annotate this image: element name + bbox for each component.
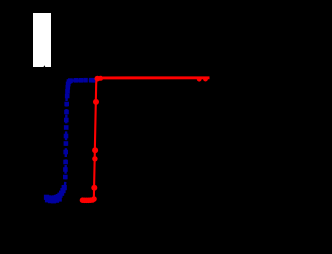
white box — [33, 13, 51, 67]
red curve line top — [98, 76, 210, 79]
red curve line lower — [81, 78, 100, 200]
blue markers vertical — [63, 82, 71, 180]
blue curve line — [46, 80, 95, 199]
red markers vertical — [91, 99, 99, 191]
red markers bottom tail — [80, 196, 97, 203]
blue markers top — [67, 78, 96, 84]
blue markers tail — [44, 185, 67, 203]
notch — [44, 65, 46, 67]
red markers top — [95, 76, 208, 82]
